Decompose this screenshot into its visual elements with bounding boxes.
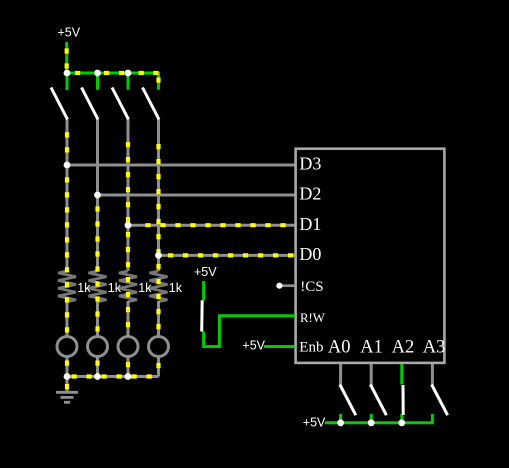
- svg-text:1k: 1k: [138, 281, 152, 295]
- svg-text:1k: 1k: [108, 281, 122, 295]
- wire: top +5V bus horizontal with right drop: [67, 73, 159, 90]
- current dots: lamp 3 lower stub: [126, 362, 130, 372]
- wire: lamp 1 to bottom bus: [66, 357, 69, 377]
- svg-text:1k: 1k: [77, 281, 91, 295]
- pin stub: A1: [370, 364, 373, 385]
- node: bottom bus junction 3: [125, 373, 132, 380]
- svg-text:D1: D1: [299, 214, 321, 234]
- wire: bottom bus to ground: [67, 375, 159, 378]
- node: bottom bus junction 2: [94, 373, 101, 380]
- svg-text:+5V: +5V: [242, 338, 265, 352]
- svg-text:D3: D3: [299, 154, 321, 174]
- svg-text:D0: D0: [299, 244, 321, 264]
- node: D1 tap junction: [125, 222, 132, 229]
- wire: lamp 3 to bottom bus: [127, 357, 130, 377]
- wire: D3 row from column 1 to chip: [67, 164, 295, 167]
- current dots: bus right drop: [156, 78, 160, 85]
- lamp/indicator circle 2: [88, 337, 108, 357]
- node: top bus junction 3: [125, 70, 132, 77]
- wire: switch S5 to R!W pin: [204, 316, 295, 347]
- svg-text:A3: A3: [423, 338, 446, 358]
- switch S3 lever (open): [112, 88, 129, 120]
- wire: rail stub under switch S6: [339, 414, 342, 423]
- wire: lamp 4 to bottom bus: [157, 357, 160, 377]
- wire: column 2 (switch S2 to resistor): [96, 120, 99, 272]
- node: address rail junction 1: [337, 419, 344, 426]
- node: !CS open pin dot: [276, 283, 282, 289]
- wire: D1 row from column 3 to chip: [128, 224, 295, 227]
- wire: green stub to switch S3: [127, 73, 130, 90]
- wire: +5V to Enb pin: [264, 345, 295, 348]
- node: address rail junction 2: [368, 419, 375, 426]
- switch S8 lever (closed, A2): [402, 385, 405, 415]
- node: D3 tap junction: [64, 162, 71, 169]
- wire: D2 row from column 2 to chip: [98, 194, 296, 197]
- node: D2 tap junction: [94, 192, 101, 199]
- switch S7 lever (open, A1): [370, 385, 386, 416]
- wire: column 4 resistor to lamp: [157, 301, 160, 336]
- current dots: lamp 1 lower stub: [65, 361, 69, 371]
- wire: D0 row from column 4 to chip: [159, 254, 296, 257]
- switch S6 lever (open, A0): [340, 385, 356, 416]
- node: top bus junction 1: [64, 70, 71, 77]
- switch S4 lever (open): [143, 88, 160, 120]
- wire: rail stub under switch S8: [400, 414, 403, 423]
- chip U1 (RAM) body: [296, 149, 445, 363]
- lamp/indicator circle 3: [118, 337, 138, 357]
- wire: +5V stub to switch S5: [202, 281, 205, 301]
- current dots: column 1: [65, 132, 69, 334]
- ground symbol: [56, 392, 78, 402]
- wire: +5V vertical feed: [65, 42, 68, 73]
- svg-text:+5V: +5V: [58, 26, 81, 40]
- svg-text:D2: D2: [299, 184, 321, 204]
- wire: column 1 resistor to lamp: [66, 301, 69, 336]
- current dots: +5V feed: [65, 48, 69, 73]
- node: top bus junction 2: [94, 70, 101, 77]
- node: D0 tap junction: [155, 252, 162, 259]
- wire: column 3 (switch S3 to resistor): [127, 120, 130, 272]
- current dots: ground stub: [65, 384, 69, 389]
- pin stub: !CS unconnected: [280, 284, 295, 287]
- current dots: column 3: [126, 142, 130, 334]
- current dots: lamp 2 lower stub: [95, 361, 99, 371]
- svg-text:Enb: Enb: [299, 340, 323, 356]
- svg-text:+5V: +5V: [303, 415, 326, 429]
- wire: ground stub: [66, 377, 69, 392]
- wire: lamp 2 to bottom bus: [96, 357, 99, 377]
- pin stub: A3: [431, 364, 434, 385]
- switch S1 lever (open): [51, 88, 68, 120]
- current dots: column 4: [156, 144, 160, 334]
- wire: rail stub under switch S7: [370, 414, 373, 423]
- svg-text:A2: A2: [392, 338, 415, 358]
- switch S9 lever (open, A3): [432, 385, 448, 416]
- current dots: top bus: [75, 71, 158, 75]
- resistor R4 1k: [150, 271, 168, 302]
- svg-text:A0: A0: [328, 338, 351, 358]
- wire: column 2 resistor to lamp: [96, 301, 99, 336]
- current dots: bottom bus: [72, 374, 158, 378]
- svg-text:!CS: !CS: [300, 279, 323, 295]
- svg-text:1k: 1k: [169, 281, 183, 295]
- current dots: D0 row: [168, 253, 295, 257]
- lamp/indicator circle 4: [149, 337, 169, 357]
- current dots: lamp 4 lower stub: [156, 363, 160, 373]
- lamp/indicator circle 1: [57, 337, 77, 357]
- pin stub: A0: [339, 364, 342, 385]
- wire: green stub to switch S2: [96, 73, 99, 90]
- svg-text:+5V: +5V: [194, 265, 217, 279]
- resistor R1 1k: [58, 271, 76, 302]
- current dots: D1 row: [145, 223, 294, 227]
- node: address rail junction 3: [398, 419, 405, 426]
- resistor R2 1k: [89, 271, 107, 302]
- svg-text:A1: A1: [360, 338, 383, 358]
- wire: green stub to switch S1: [66, 73, 69, 90]
- node: bottom bus junction 1: [64, 373, 71, 380]
- wire: column 4 (switch S4 to resistor): [157, 120, 160, 272]
- resistor R3 1k: [119, 271, 137, 302]
- current dots: column 2: [95, 206, 99, 334]
- switch S2 lever (open): [82, 88, 99, 120]
- wire: column 3 resistor to lamp: [127, 301, 130, 336]
- wire: column 1 (switch S1 to resistor): [66, 120, 69, 272]
- wire: +5V address rail with right riser: [325, 414, 433, 423]
- switch S5 lever (closed): [200, 300, 204, 331]
- pin stub: A2 (energized): [400, 364, 403, 385]
- svg-text:R!W: R!W: [300, 311, 326, 325]
